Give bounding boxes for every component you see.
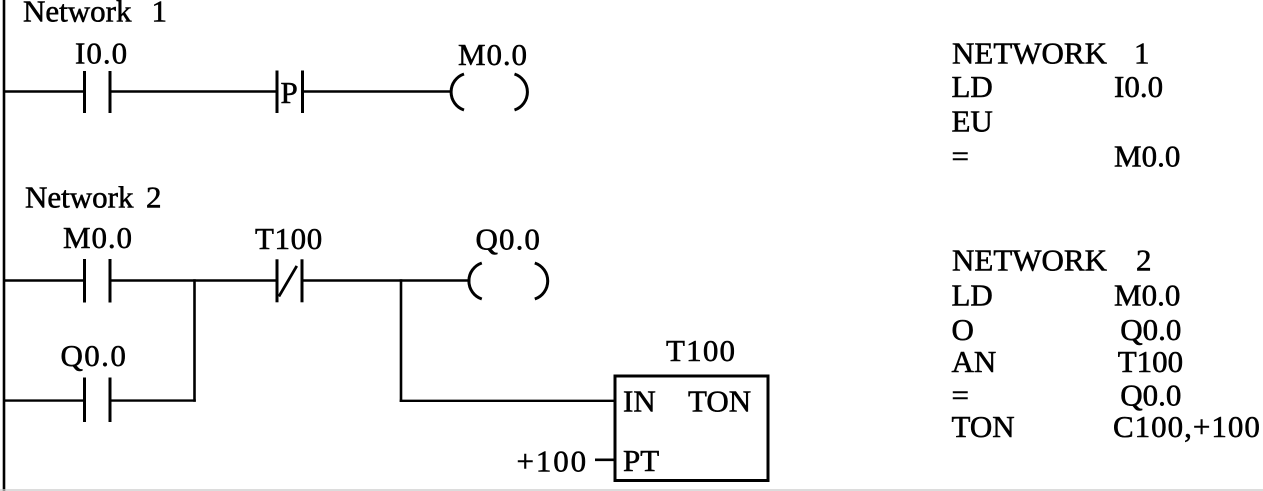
STL O Q0.0 <box>952 312 1182 347</box>
STL LD I0.0 <box>952 69 1164 104</box>
svg-text:2: 2 <box>146 180 162 215</box>
svg-text:T100: T100 <box>666 333 736 368</box>
svg-text:Network: Network <box>23 0 132 29</box>
svg-text:2: 2 <box>1136 243 1152 278</box>
svg-text:P: P <box>281 75 298 110</box>
svg-text:AN: AN <box>952 344 997 379</box>
STL TON C100,+100 <box>952 409 1261 444</box>
wire rail to contact Q0.0 <box>4 399 84 401</box>
svg-text:=: = <box>952 378 969 413</box>
timer box T100 TON <box>615 333 768 481</box>
edge contact P <box>277 71 303 114</box>
svg-text:1: 1 <box>152 0 168 29</box>
svg-text:EU: EU <box>952 104 993 139</box>
PT preset value +100 <box>517 444 615 479</box>
faint page rule at bottom <box>0 489 1263 490</box>
svg-text:PT: PT <box>623 443 659 478</box>
svg-text:T100: T100 <box>1118 344 1183 379</box>
branch wire parallel Q0.0 vertical <box>193 279 196 402</box>
svg-text:NETWORK: NETWORK <box>952 36 1108 71</box>
STL NETWORK 2 header <box>952 243 1152 278</box>
svg-text:M0.0: M0.0 <box>1114 277 1180 312</box>
wire rail to contact M0.0 <box>4 279 84 281</box>
wire contact M0.0 to NC contact T100 <box>111 279 278 281</box>
svg-text:=: = <box>952 139 969 174</box>
STL EU <box>952 104 993 139</box>
svg-text:Q0.0: Q0.0 <box>1120 312 1181 347</box>
STL AN T100 <box>952 344 1184 379</box>
wire contact Q0.0 to branch <box>111 399 196 401</box>
branch wire to timer vertical <box>400 279 403 402</box>
contact M0.0 <box>63 220 133 303</box>
svg-text:NETWORK: NETWORK <box>952 243 1108 278</box>
svg-text:M0.0: M0.0 <box>458 37 528 72</box>
wire rail to contact I0.0 <box>4 90 84 92</box>
svg-text:Q0.0: Q0.0 <box>61 338 128 373</box>
STL = Q0.0 <box>952 378 1182 413</box>
svg-text:Q0.0: Q0.0 <box>1120 378 1181 413</box>
left power rail <box>3 0 6 491</box>
svg-text:TON: TON <box>688 384 751 419</box>
svg-text:Network: Network <box>25 180 134 215</box>
svg-text:LD: LD <box>952 69 993 104</box>
Network 1 label <box>23 0 167 29</box>
svg-text:M0.0: M0.0 <box>1114 139 1180 174</box>
coil Q0.0 <box>469 222 548 300</box>
svg-text:1: 1 <box>1134 36 1150 71</box>
svg-text:+100: +100 <box>517 444 589 479</box>
svg-text:TON: TON <box>952 409 1015 444</box>
STL NETWORK 1 header <box>952 36 1150 71</box>
svg-text:I0.0: I0.0 <box>1114 69 1163 104</box>
svg-text:T100: T100 <box>255 221 323 256</box>
svg-text:C100,+100: C100,+100 <box>1113 409 1261 444</box>
svg-text:I0.0: I0.0 <box>75 36 128 71</box>
Network 2 label <box>25 180 162 215</box>
contact Q0.0 <box>61 338 128 422</box>
STL LD M0.0 <box>952 277 1181 312</box>
svg-text:IN: IN <box>623 384 656 419</box>
svg-text:O: O <box>952 312 974 347</box>
svg-text:Q0.0: Q0.0 <box>476 222 542 257</box>
wire NC contact T100 to coil Q0.0 <box>303 279 471 281</box>
wire to timer IN <box>400 400 615 402</box>
coil M0.0 <box>451 37 528 110</box>
wire contact I0.0 to edge contact P <box>111 90 278 92</box>
NC contact T100 <box>255 221 323 302</box>
contact I0.0 <box>75 36 128 114</box>
STL = M0.0 <box>952 139 1181 174</box>
svg-text:M0.0: M0.0 <box>63 220 133 255</box>
svg-text:LD: LD <box>952 277 993 312</box>
wire edge contact P to coil M0.0 <box>303 90 452 92</box>
